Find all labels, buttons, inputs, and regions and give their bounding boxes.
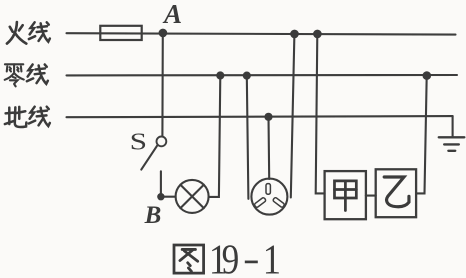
lamp (circle with X) [176,180,209,213]
wire live to socket right pin [291,34,295,197]
three-hole socket [251,179,287,215]
wire between 甲 and 乙 [366,195,376,197]
ground symbol [439,137,465,151]
appliance box 甲 [325,171,366,219]
wire lamp to neutral riser [209,75,221,196]
junction dot neutral/socket left [243,72,251,80]
wire switch lower contact to node B [160,171,162,193]
label 乙 [384,177,409,207]
svg-text:1: 1 [263,236,281,278]
wire node B to lamp [164,196,175,198]
wire live to appliance 甲 [316,34,325,193]
earth wire 地线 (bottom horizontal) [67,116,453,117]
label 零线 [5,64,48,86]
wire node A to switch [161,33,164,136]
fuse on live wire [100,26,141,40]
label 火线 [7,22,50,43]
label 甲 [334,181,356,211]
wire earth to socket centre pin [267,117,270,179]
junction dot neutral/appliance 乙 [423,71,432,80]
node A junction dot [159,29,168,38]
switch S circle contact [157,137,167,147]
junction dot live/appliance 甲 [313,30,322,39]
label 地线 [5,107,50,127]
svg-text:9: 9 [222,237,240,278]
live wire 火线 (top horizontal) [67,33,456,34]
caption 图 [174,245,204,273]
wire neutral to socket left pin [247,76,249,199]
node B junction dot [157,193,164,200]
svg-text:A: A [162,0,182,29]
wire earth to ground symbol [452,116,454,137]
neutral wire 零线 (middle horizontal) [67,74,458,77]
svg-text:S: S [130,128,147,155]
junction dot neutral/lamp riser [216,71,224,79]
wire 乙 to neutral [416,76,427,194]
svg-text:B: B [144,202,162,229]
appliance box 乙 [376,169,416,217]
junction dot live/socket right [290,30,299,39]
switch S blade [141,146,157,170]
junction dot earth/socket centre [264,113,272,121]
